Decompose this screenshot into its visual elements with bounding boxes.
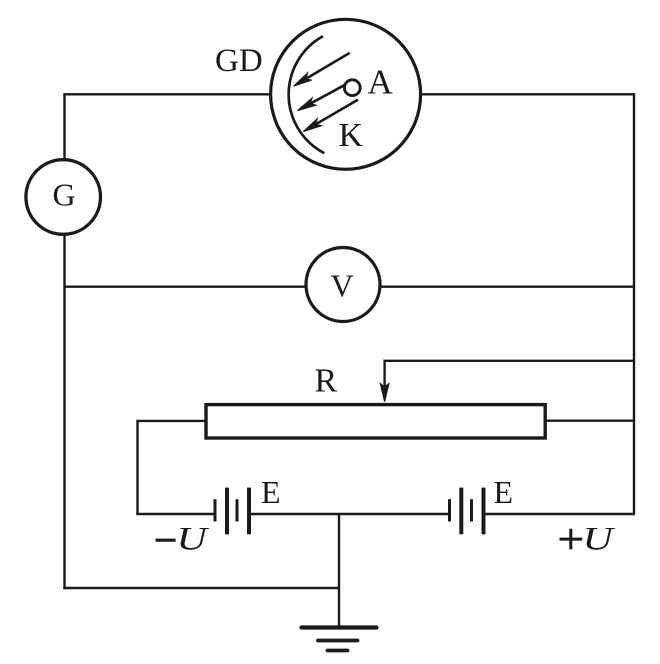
svg-text:K: K [339, 117, 364, 154]
battery E1 plate short-left [214, 499, 217, 521]
galvanometer G circle [26, 160, 101, 235]
wire R left lead [138, 421, 207, 515]
wire ground lead [338, 514, 340, 628]
photoelectron arrow 2 [298, 85, 346, 111]
voltmeter V circle [306, 248, 380, 322]
svg-text:U: U [583, 520, 616, 557]
photoelectron arrow 3 [303, 100, 358, 132]
wire V branch right [380, 286, 635, 288]
wiper arrowhead [380, 384, 388, 402]
wire V branch left [65, 286, 307, 288]
ground bar long [302, 625, 377, 629]
svg-text:E: E [261, 474, 281, 510]
battery E1 plate short-right [236, 499, 239, 521]
battery E2 plate short-right [470, 499, 473, 521]
wire battery row right segment [485, 513, 634, 515]
svg-text:G: G [53, 177, 76, 213]
battery E2 plate short-left [448, 499, 451, 521]
photoelectron arrow 1 [294, 53, 350, 86]
label -U minus sign [156, 539, 176, 542]
svg-text:V: V [331, 268, 354, 304]
wire G bottom down left rail [63, 234, 65, 589]
wire wiper feed from right rail [385, 361, 634, 387]
ground bar short [328, 649, 348, 653]
wire GD tube right to right rail [421, 93, 635, 95]
potentiometer R body [206, 405, 545, 438]
svg-text:GD: GD [215, 43, 263, 79]
battery E1 plate tall-right [247, 488, 251, 535]
ground bar middle [318, 639, 358, 643]
svg-text:R: R [315, 363, 338, 400]
wire battery row left segment [136, 513, 213, 515]
svg-text:A: A [368, 63, 394, 102]
wire battery row middle segment [251, 513, 449, 515]
anode A terminal [344, 80, 360, 96]
wire top-left horizontal (left rail to GD tube) [65, 94, 272, 160]
battery E2 plate tall [459, 488, 463, 535]
svg-text:U: U [177, 520, 210, 557]
battery E2 plate tall-right [482, 488, 486, 535]
wire R right lead [545, 420, 634, 422]
wire right rail [633, 93, 635, 515]
svg-text:E: E [494, 474, 514, 510]
wire G branch to ground node [63, 587, 339, 589]
label +U plus sign [560, 529, 583, 550]
battery E1 plate tall [225, 488, 229, 535]
phototube GD envelope [271, 19, 421, 169]
cathode K arc [289, 36, 325, 153]
